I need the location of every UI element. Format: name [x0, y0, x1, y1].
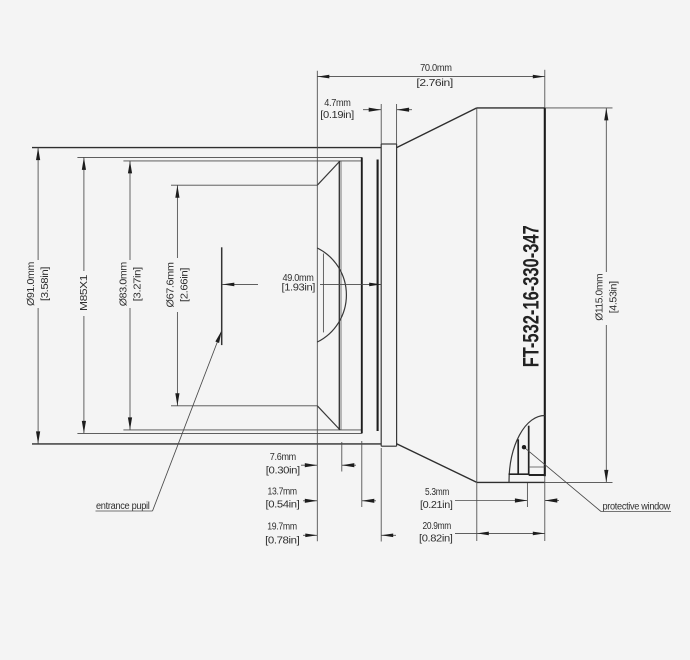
- dimension 4.7mm extensions: [380, 104, 382, 144]
- dimension Ø115.0mm arrows: [604, 108, 608, 121]
- svg-text:[0.21in]: [0.21in]: [420, 500, 453, 511]
- dimension 7.6mm right line and arrow: [342, 464, 356, 466]
- svg-text:Ø91.0mm: Ø91.0mm: [26, 262, 37, 306]
- dimension 20.9mm line: [455, 532, 545, 534]
- svg-text:[0.78in]: [0.78in]: [265, 535, 300, 546]
- svg-text:[0.82in]: [0.82in]: [419, 533, 453, 544]
- entrance pupil underline: [96, 510, 153, 512]
- svg-text:[1.93in]: [1.93in]: [282, 283, 316, 294]
- svg-text:[3.58in]: [3.58in]: [40, 266, 51, 301]
- dimension Ø67.6mm line: [176, 185, 178, 258]
- svg-text:[3.27in]: [3.27in]: [133, 267, 144, 302]
- cone bottom slant: [397, 444, 477, 483]
- dimension Ø115.0mm line: [605, 108, 607, 272]
- dimension 70.0mm right extension: [544, 70, 546, 108]
- dimension 19.7mm extension: [380, 448, 382, 542]
- flange bottom edge: [381, 445, 396, 447]
- window seat upper line: [529, 466, 545, 468]
- dimension 13.7mm left line and arrow: [303, 500, 317, 502]
- window seat lower line: [529, 474, 545, 476]
- thread root line top (Ø83): [123, 160, 361, 162]
- thread crest line top (M85X1): [77, 156, 361, 158]
- dimension Ø83.0mm line: [129, 161, 131, 260]
- bore step vertical / extension line x=317: [316, 71, 318, 542]
- dimension M85X1 line: [83, 157, 85, 271]
- window recess floor: [509, 473, 529, 475]
- dimension 4.7mm left line and arrow: [363, 109, 381, 111]
- svg-text:M85X1: M85X1: [79, 274, 90, 311]
- lens clear aperture line: [322, 254, 324, 333]
- cone top edge: [477, 107, 545, 109]
- protective window leader dot: [522, 445, 526, 449]
- svg-text:7.6mm: 7.6mm: [270, 452, 296, 463]
- barrel internal face x=362: [361, 157, 363, 433]
- dimension 70.0mm right arrow: [533, 75, 545, 79]
- entrance pupil line: [221, 247, 223, 345]
- svg-text:FT-532-16-330-347: FT-532-16-330-347: [520, 225, 544, 367]
- barrel outer edge top (Ø91): [32, 147, 381, 149]
- dimension 20.9mm arrows: [477, 532, 489, 536]
- svg-text:[0.30in]: [0.30in]: [266, 465, 301, 476]
- dimension 7.6mm extension: [341, 442, 343, 472]
- svg-text:[0.54in]: [0.54in]: [266, 500, 301, 511]
- dimension 70.0mm left arrow: [317, 75, 329, 79]
- dimension M85X1 arrows: [82, 157, 86, 170]
- dimension Ø91.0mm line: [37, 148, 39, 260]
- housing right face: [544, 108, 546, 476]
- svg-text:4.7mm: 4.7mm: [324, 98, 350, 109]
- bore chamfer top: [317, 161, 340, 185]
- barrel rear face x=378: [377, 160, 379, 432]
- bore line top (Ø67.6): [171, 184, 317, 186]
- cone top slant: [397, 108, 477, 148]
- svg-text:20.9mm: 20.9mm: [423, 521, 452, 532]
- svg-text:protective window: protective window: [603, 501, 672, 512]
- svg-text:Ø67.6mm: Ø67.6mm: [165, 262, 176, 307]
- window recess vertical 2: [528, 426, 530, 475]
- cone junction vertical: [476, 108, 478, 483]
- flange top edge: [381, 143, 396, 145]
- dimension 13.7mm right line and arrow: [362, 500, 376, 502]
- barrel outer edge bottom (Ø91): [32, 443, 381, 445]
- flange left face: [380, 144, 382, 446]
- dimension 13.7mm extension: [361, 441, 363, 507]
- dimension Ø115.0mm bottom extension: [545, 481, 613, 483]
- dimension Ø83.0mm arrows: [128, 161, 132, 174]
- svg-text:70.0mm: 70.0mm: [420, 63, 452, 74]
- dimension 5.3mm extension: [526, 483, 528, 507]
- svg-text:[2.76in]: [2.76in]: [416, 78, 453, 89]
- dimension 49.0mm line left segment with arrow: [222, 283, 258, 285]
- entrance pupil leader: [153, 331, 222, 511]
- protective window underline: [601, 511, 671, 513]
- dimension 20.9mm extensions: [476, 483, 478, 541]
- dimension Ø115.0mm top extension: [545, 107, 613, 109]
- thread crest line bottom (M85X1): [77, 432, 361, 434]
- dimension 5.3mm right line and arrow: [545, 500, 559, 502]
- dimension 7.6mm left line and arrow: [301, 464, 317, 466]
- dimension 19.7mm right line and arrow: [381, 534, 396, 536]
- svg-text:13.7mm: 13.7mm: [268, 486, 297, 497]
- svg-text:Ø115.0mm: Ø115.0mm: [594, 274, 605, 321]
- dimension 4.7mm right line and arrow: [397, 109, 412, 111]
- svg-text:[2.66in]: [2.66in]: [180, 267, 191, 302]
- cone bottom edge: [477, 481, 545, 483]
- dimension 5.3mm left line and arrow: [455, 500, 527, 502]
- svg-text:entrance pupil: entrance pupil: [96, 501, 150, 512]
- dimension 49.0mm line right segment with arrow: [320, 283, 381, 285]
- thread root line bottom (Ø83): [123, 429, 361, 431]
- dimension 19.7mm left line and arrow: [303, 534, 317, 536]
- svg-text:[4.53in]: [4.53in]: [609, 281, 620, 314]
- bore chamfer bottom: [317, 406, 340, 430]
- window recess vertical 1: [517, 439, 519, 474]
- lens dome arc: [317, 248, 346, 342]
- svg-text:[0.19in]: [0.19in]: [320, 110, 354, 121]
- dimension Ø67.6mm arrows: [175, 185, 179, 198]
- entrance pupil leader arrowhead: [215, 330, 223, 343]
- svg-text:Ø83.0mm: Ø83.0mm: [118, 262, 129, 306]
- dimension 70.0mm line: [317, 76, 545, 78]
- protective window leader: [524, 447, 601, 511]
- dimension Ø91.0mm arrows: [36, 148, 40, 161]
- lens element front face: [338, 161, 340, 430]
- svg-text:5.3mm: 5.3mm: [425, 487, 449, 498]
- bore line bottom (Ø67.6): [171, 405, 317, 407]
- svg-text:19.7mm: 19.7mm: [267, 522, 297, 533]
- protective window arc: [509, 416, 545, 483]
- flange right face: [396, 144, 398, 446]
